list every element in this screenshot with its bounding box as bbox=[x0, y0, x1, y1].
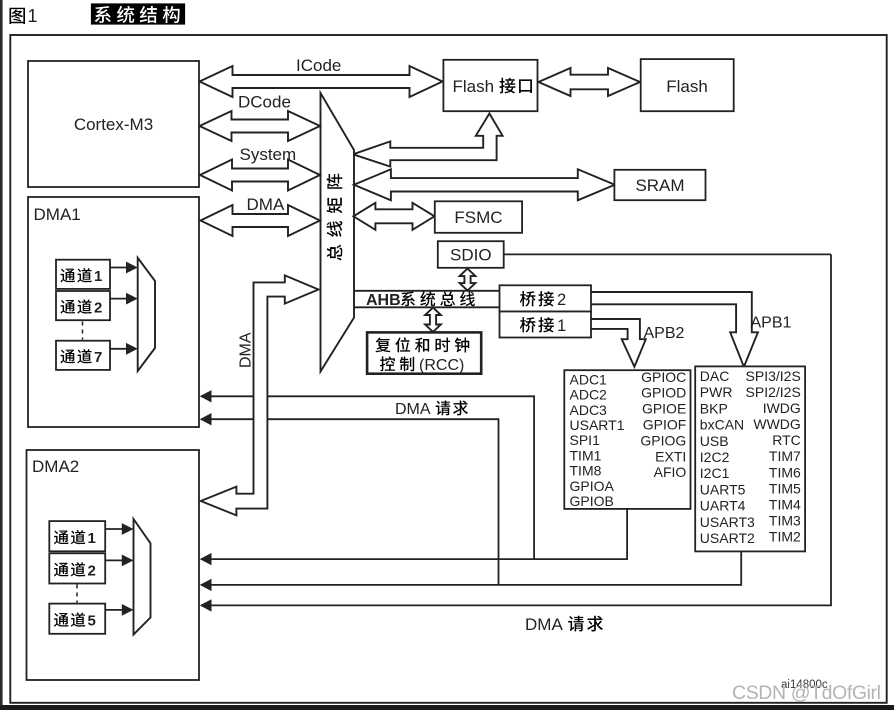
svg-text:1: 1 bbox=[88, 530, 96, 547]
box SDIO bbox=[438, 241, 504, 268]
svg-text:BKP: BKP bbox=[700, 400, 728, 416]
svg-text:AHB: AHB bbox=[366, 292, 401, 309]
arrow 通道 to mux bbox=[110, 298, 127, 300]
svg-text:System: System bbox=[240, 145, 297, 164]
box DMA1 bbox=[28, 197, 199, 427]
hollow arrow SDIO to AHB bus bbox=[460, 269, 476, 291]
svg-text:DCode: DCode bbox=[238, 93, 291, 112]
box APB1 peripherals bbox=[695, 366, 805, 551]
svg-text:I2C2: I2C2 bbox=[700, 449, 730, 465]
DMA1 mux trapezoid bbox=[138, 258, 155, 371]
title highlight 系统结构 bbox=[91, 3, 185, 24]
wire SDIO to right column bbox=[504, 253, 831, 255]
svg-text:I2C1: I2C1 bbox=[700, 465, 730, 481]
hollow arrow ICode bbox=[200, 66, 443, 97]
svg-text:USART2: USART2 bbox=[700, 530, 755, 546]
svg-text:(RCC): (RCC) bbox=[419, 357, 464, 374]
box FSMC bbox=[435, 201, 522, 233]
box Cortex-M3 bbox=[28, 61, 199, 187]
svg-text:GPIOD: GPIOD bbox=[641, 385, 686, 401]
svg-text:APB1: APB1 bbox=[751, 315, 792, 332]
box bridge2 桥接2 bbox=[500, 285, 592, 311]
page left edge bar bbox=[0, 0, 3, 710]
svg-text:EXTI: EXTI bbox=[655, 448, 686, 464]
svg-text:GPIOE: GPIOE bbox=[642, 401, 686, 417]
box DMA2 通道2 bbox=[49, 553, 105, 583]
wire DMA request line B from APB1 box to DMA2 bbox=[201, 551, 741, 585]
svg-text:DMA2: DMA2 bbox=[32, 457, 79, 476]
svg-text:TIM4: TIM4 bbox=[769, 496, 801, 512]
arrow 通道 to mux bbox=[105, 609, 122, 611]
svg-text:APB2: APB2 bbox=[644, 325, 685, 342]
AHB system bus lines bbox=[354, 291, 500, 308]
svg-text:IWDG: IWDG bbox=[763, 400, 801, 416]
svg-text:SRAM: SRAM bbox=[635, 176, 684, 195]
box DMA2 通道5 bbox=[49, 604, 105, 634]
box SRAM bbox=[614, 170, 705, 200]
svg-text:Flash: Flash bbox=[666, 77, 708, 96]
svg-text:UART5: UART5 bbox=[700, 481, 746, 497]
hollow arrow DCode bbox=[200, 111, 321, 141]
svg-text:UART4: UART4 bbox=[700, 498, 746, 514]
box DMA1 通道7 bbox=[56, 341, 110, 370]
arrow 通道 to mux bbox=[110, 348, 127, 350]
svg-text:1: 1 bbox=[28, 6, 38, 26]
svg-text:TIM1: TIM1 bbox=[570, 447, 602, 463]
wire DMA request line 1 (APB2) to DMA1 bbox=[201, 396, 534, 559]
svg-text:DMA: DMA bbox=[525, 615, 563, 634]
svg-text:FSMC: FSMC bbox=[454, 208, 502, 227]
svg-text:TIM2: TIM2 bbox=[769, 529, 801, 545]
hollow arrow System bbox=[200, 160, 320, 191]
box DMA2 通道1 bbox=[49, 521, 105, 551]
box Flash bbox=[641, 59, 734, 111]
box bridge1 桥接1 bbox=[500, 312, 592, 338]
svg-text:USART1: USART1 bbox=[570, 417, 625, 433]
svg-text:WWDG: WWDG bbox=[753, 416, 800, 432]
hollow elbow arrow: DMA channel between bus matrix and DMA2 bbox=[201, 275, 319, 515]
arrow 通道 to mux bbox=[110, 267, 127, 269]
page bottom bar bbox=[0, 705, 894, 710]
svg-text:7: 7 bbox=[94, 349, 102, 366]
svg-text:ADC1: ADC1 bbox=[570, 371, 608, 387]
hollow arrow matrix to SRAM bbox=[354, 169, 615, 200]
svg-text:TIM8: TIM8 bbox=[570, 463, 602, 479]
svg-text:GPIOB: GPIOB bbox=[570, 493, 614, 509]
svg-text:Cortex-M3: Cortex-M3 bbox=[74, 115, 153, 134]
svg-text:DAC: DAC bbox=[700, 368, 730, 384]
svg-text:TIM3: TIM3 bbox=[769, 513, 801, 529]
dashed link DMA1 channels bbox=[82, 322, 84, 340]
svg-text:SPI1: SPI1 bbox=[570, 432, 601, 448]
svg-text:2: 2 bbox=[88, 562, 96, 579]
svg-text:Flash: Flash bbox=[453, 77, 495, 96]
svg-text:TIM6: TIM6 bbox=[769, 464, 801, 480]
bus matrix trapezoid 总线矩阵 bbox=[321, 93, 355, 372]
svg-text:GPIOF: GPIOF bbox=[643, 417, 687, 433]
box DMA1 通道1 bbox=[56, 260, 110, 289]
dashed link DMA2 channels bbox=[76, 585, 78, 603]
svg-text:GPIOA: GPIOA bbox=[570, 478, 615, 494]
svg-text:DMA1: DMA1 bbox=[34, 205, 81, 224]
hollow arrow Flash interface to Flash bbox=[539, 68, 641, 96]
svg-text:AFIO: AFIO bbox=[654, 464, 687, 480]
hollow arrow bridge1 to APB2 bbox=[591, 319, 646, 367]
svg-text:DMA: DMA bbox=[247, 195, 285, 214]
box DMA1 通道2 bbox=[56, 291, 110, 320]
svg-text:2: 2 bbox=[94, 300, 102, 317]
hollow arrow AHB bus to RCC bbox=[425, 308, 441, 333]
svg-text:1: 1 bbox=[557, 317, 566, 335]
svg-text:ADC2: ADC2 bbox=[570, 387, 608, 403]
svg-text:SDIO: SDIO bbox=[450, 246, 492, 265]
svg-text:5: 5 bbox=[88, 613, 96, 630]
svg-text:ICode: ICode bbox=[296, 56, 341, 75]
wire right column down (SDIO DMA request) + DMA request line C into DMA2 bbox=[201, 254, 831, 605]
box DMA2 bbox=[27, 450, 200, 680]
svg-text:DMA: DMA bbox=[395, 401, 431, 418]
svg-text:CSDN @TdOfGirl: CSDN @TdOfGirl bbox=[732, 682, 881, 704]
box APB2 peripherals bbox=[564, 370, 690, 509]
svg-text:GPIOG: GPIOG bbox=[640, 432, 686, 448]
box Flash 接口 bbox=[443, 60, 537, 111]
svg-text:DMA: DMA bbox=[238, 332, 255, 368]
svg-text:TIM7: TIM7 bbox=[769, 448, 801, 464]
svg-text:RTC: RTC bbox=[772, 432, 801, 448]
arrow 通道 to mux bbox=[105, 559, 122, 561]
arrow 通道 to mux bbox=[105, 528, 122, 530]
svg-text:2: 2 bbox=[557, 291, 566, 309]
hollow elbow arrow: Flash interface feedback to bus matrix bbox=[353, 114, 503, 167]
svg-text:TIM5: TIM5 bbox=[769, 480, 801, 496]
svg-text:PWR: PWR bbox=[700, 384, 733, 400]
hollow arrow bridge2 to APB1 bbox=[591, 292, 758, 367]
wire DMA request line A from APB2 box to DMA2 bbox=[201, 509, 627, 559]
svg-text:USART3: USART3 bbox=[700, 514, 755, 530]
svg-text:1: 1 bbox=[94, 268, 102, 285]
DMA2 mux trapezoid bbox=[134, 519, 151, 635]
svg-text:USB: USB bbox=[700, 433, 729, 449]
hollow arrow matrix to FSMC bbox=[353, 203, 434, 230]
svg-text:SPI2/I2S: SPI2/I2S bbox=[746, 384, 801, 400]
hollow arrow DMA (Cortex) bbox=[201, 205, 321, 236]
svg-text:GPIOC: GPIOC bbox=[641, 369, 686, 385]
svg-text:SPI3/I2S: SPI3/I2S bbox=[746, 368, 801, 384]
wire DMA request line 2 (APB1) to DMA1 bbox=[201, 419, 499, 585]
box RCC 复位和时钟控制 bbox=[367, 332, 481, 373]
svg-text:bxCAN: bxCAN bbox=[700, 417, 744, 433]
svg-text:ADC3: ADC3 bbox=[570, 402, 608, 418]
